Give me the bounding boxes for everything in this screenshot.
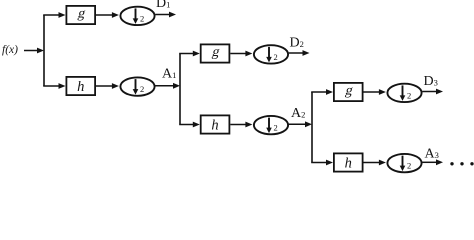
- svg-text:2: 2: [140, 84, 144, 94]
- downsampler V1 (down-arrow 2): [120, 7, 154, 25]
- svg-text:2: 2: [274, 52, 278, 62]
- wire node N2 to filter h2: [179, 122, 200, 128]
- svg-text:A1: A1: [162, 67, 176, 82]
- node N3 split wire (vertical): [311, 92, 313, 163]
- wire g2 to downsampler V3: [230, 51, 252, 57]
- svg-text:h: h: [345, 156, 352, 172]
- wire node N2 to filter g2: [179, 51, 200, 57]
- filter box h2: [201, 115, 230, 133]
- node N2 split wire (vertical): [179, 54, 181, 125]
- wire D3 output arrow: [422, 89, 443, 95]
- ellipsis dots (continuation): [450, 162, 473, 165]
- svg-text:A2: A2: [291, 106, 305, 121]
- svg-text:h: h: [77, 79, 84, 95]
- downsampler V6 (down-arrow 2): [387, 154, 421, 172]
- wire g3 to downsampler V5: [364, 89, 386, 95]
- node N1 split wire (vertical): [43, 15, 45, 86]
- wire A2 output arrow: [289, 121, 312, 127]
- wire h1 to downsampler V2: [96, 83, 119, 89]
- wire node N3 to filter g3: [311, 89, 333, 95]
- svg-text:A3: A3: [425, 147, 439, 162]
- svg-text:2: 2: [407, 161, 411, 171]
- svg-text:2: 2: [274, 123, 278, 133]
- wire h3 to downsampler V6: [364, 160, 386, 166]
- svg-text:h: h: [211, 118, 218, 134]
- wire A1 output arrow: [155, 83, 180, 89]
- svg-text:f(x): f(x): [2, 44, 18, 56]
- svg-text:D3: D3: [424, 74, 438, 89]
- wire node N1 to filter h1: [43, 83, 65, 89]
- wire g1 to downsampler V1: [96, 12, 119, 18]
- downsampler V3 (down-arrow 2): [254, 45, 288, 63]
- downsampler V4 (down-arrow 2): [254, 116, 288, 134]
- filter box g3: [334, 83, 363, 101]
- wire h2 to downsampler V4: [230, 122, 252, 128]
- svg-text:D2: D2: [290, 36, 304, 51]
- downsampler V2 (down-arrow 2): [120, 77, 154, 95]
- wavelet filter-bank diagram: [0, 0, 474, 175]
- filter box g2: [201, 44, 230, 62]
- wire D1 output arrow: [155, 12, 176, 18]
- svg-text:2: 2: [140, 13, 144, 23]
- wire D2 output arrow: [289, 50, 310, 56]
- wire node N1 to filter g1: [43, 12, 65, 18]
- wire A3 output arrow: [422, 159, 443, 165]
- svg-text:2: 2: [407, 90, 411, 100]
- wire f(x) input arrow into node N1: [24, 48, 44, 54]
- filter box g1: [66, 6, 95, 24]
- filter box h1: [66, 77, 95, 95]
- downsampler V5 (down-arrow 2): [387, 84, 421, 102]
- svg-text:D1: D1: [156, 0, 170, 11]
- wire node N3 to filter h3: [311, 160, 333, 166]
- filter box h3: [334, 153, 363, 171]
